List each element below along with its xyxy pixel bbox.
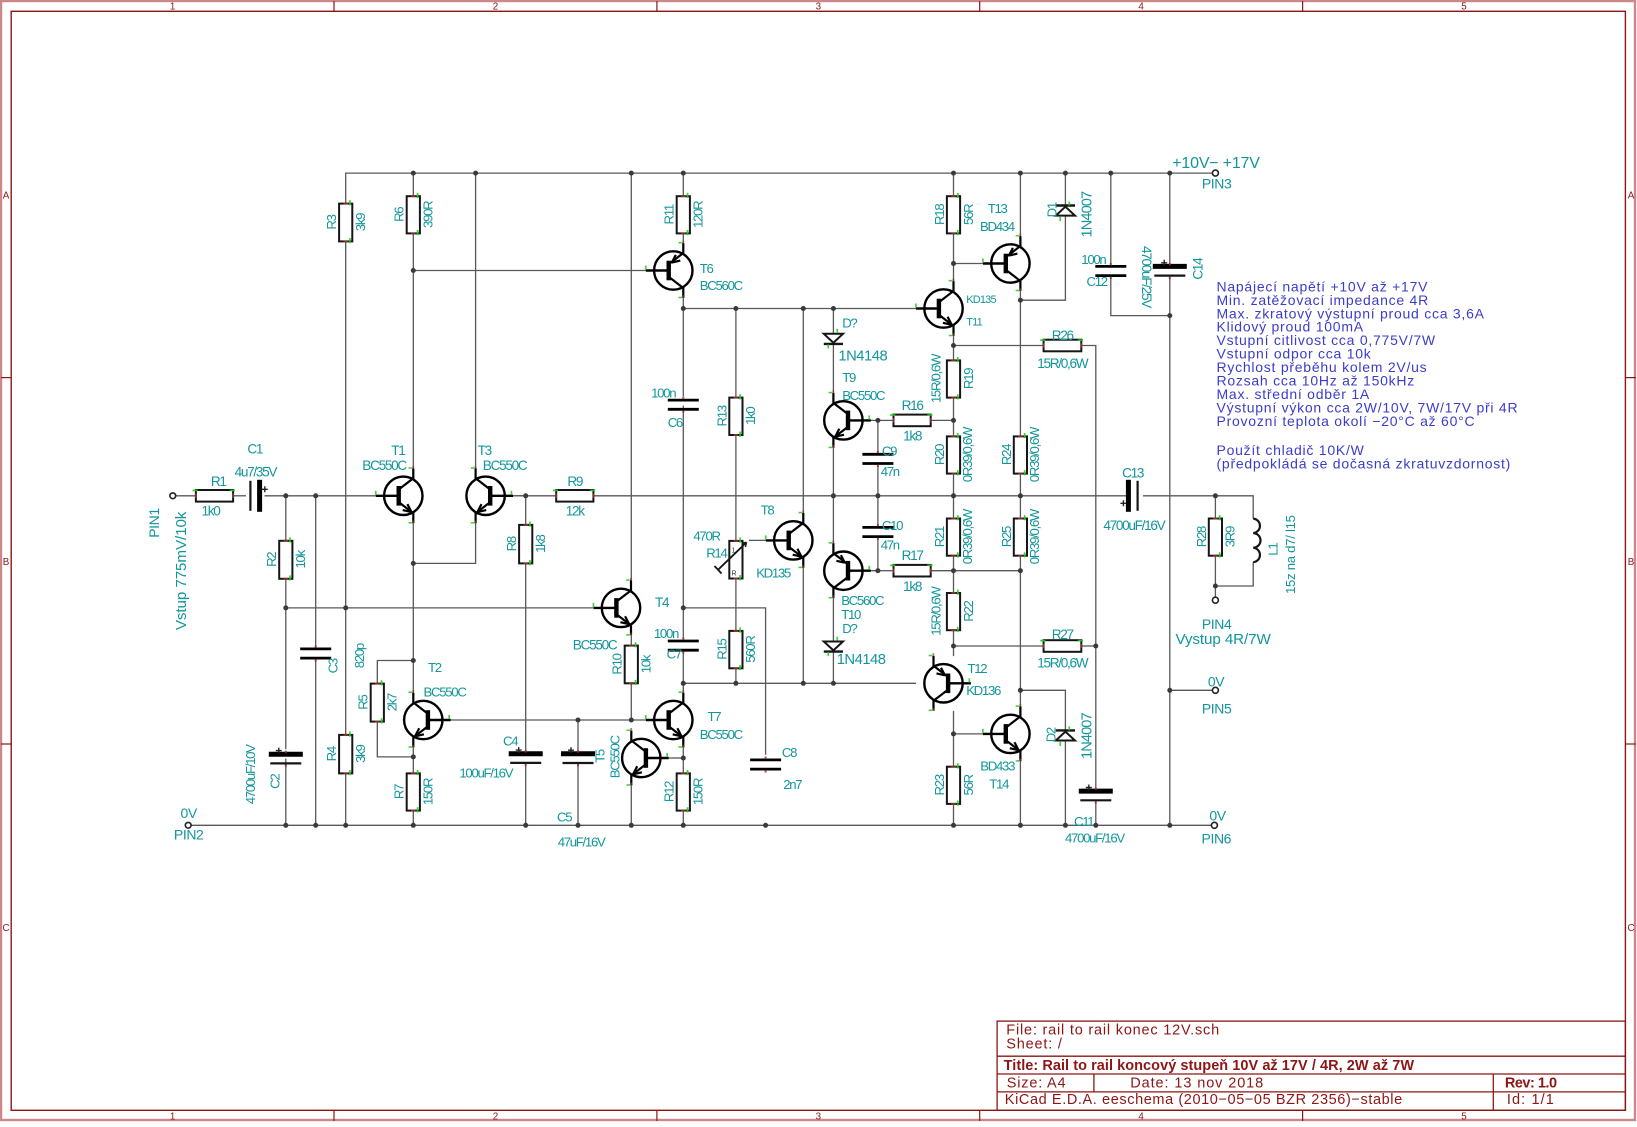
svg-text:2k7: 2k7 xyxy=(385,693,400,711)
wire R28 bottom pin xyxy=(1214,556,1216,586)
svg-text:4700uF/10V: 4700uF/10V xyxy=(243,744,258,804)
PIN3 circle xyxy=(1212,170,1218,176)
resistor R3 xyxy=(339,200,352,243)
svg-text:C14: C14 xyxy=(1191,257,1206,280)
svg-text:100n: 100n xyxy=(1081,252,1106,267)
wire T6 bottom pin ext xyxy=(682,298,684,309)
wire R17 left wire xyxy=(878,570,894,572)
svg-text:C5: C5 xyxy=(557,810,572,825)
svg-text:47uF/16V: 47uF/16V xyxy=(558,834,606,849)
wire C5 top xyxy=(577,720,579,754)
junction railb D2 xyxy=(1063,823,1068,828)
wire tail to T2 collector xyxy=(412,563,414,692)
resistor R12 xyxy=(677,770,690,812)
wire R12 pin top xyxy=(682,758,684,773)
wire input node xyxy=(176,495,196,497)
junction T13coll xyxy=(1018,298,1023,303)
wire T4 collector up xyxy=(630,173,632,580)
capacitor C14 xyxy=(1153,260,1187,279)
PIN5 circle xyxy=(1212,687,1218,693)
wire R7 bottom xyxy=(412,811,414,826)
wire T13 base wire xyxy=(954,263,984,265)
svg-text:R23: R23 xyxy=(932,774,947,795)
junction out R28 xyxy=(1213,493,1218,498)
svg-text:150R: 150R xyxy=(421,778,436,805)
junction railb C11 xyxy=(1093,823,1098,828)
wire R19-R20 junction xyxy=(953,398,955,437)
svg-text:B: B xyxy=(1628,557,1635,568)
wire R22 top xyxy=(953,571,955,593)
diode D?1 xyxy=(824,329,843,349)
wire R13 top pin xyxy=(735,309,737,398)
svg-text:BC550C: BC550C xyxy=(700,727,744,742)
svg-text:R17: R17 xyxy=(902,548,924,563)
svg-text:100n: 100n xyxy=(651,386,676,401)
junction railb C2 xyxy=(283,823,288,828)
wire C12 bottom wire xyxy=(1111,276,1170,316)
wire R17 right wire xyxy=(931,570,954,572)
junction railb C14 xyxy=(1167,823,1172,828)
junction railb R4 xyxy=(343,823,348,828)
wire C9 bottom xyxy=(877,464,879,496)
junction tail2 xyxy=(411,658,416,663)
svg-text:T1: T1 xyxy=(391,443,405,458)
svg-text:0V: 0V xyxy=(1209,808,1226,824)
wire R23 bottom xyxy=(953,804,955,825)
wire C11 bottom xyxy=(1095,800,1097,825)
wire R27 left wire xyxy=(954,645,1044,647)
svg-text:R2: R2 xyxy=(264,552,279,567)
capacitor C13 xyxy=(1120,480,1137,512)
junction mid C6C7 xyxy=(681,605,686,610)
junction railb C4 xyxy=(523,823,528,828)
svg-text:4700uF/16V: 4700uF/16V xyxy=(1103,518,1165,533)
svg-text:R14: R14 xyxy=(706,546,727,561)
svg-text:12k: 12k xyxy=(566,504,586,519)
svg-text:2: 2 xyxy=(493,2,498,13)
capacitor C11 xyxy=(1079,785,1113,804)
wire R19 top pin xyxy=(953,346,955,361)
svg-text:0R39/0,6W: 0R39/0,6W xyxy=(960,426,975,482)
input pin PIN1 circle xyxy=(170,493,176,499)
wire T7 emitter down xyxy=(682,747,684,758)
wire T11 emitter down xyxy=(953,336,955,346)
junction tail1 xyxy=(411,561,416,566)
svg-text:56R: 56R xyxy=(961,204,976,225)
svg-text:C9: C9 xyxy=(882,444,897,459)
svg-text:R12: R12 xyxy=(662,781,677,802)
svg-text:R5: R5 xyxy=(356,695,371,710)
wire R14 wiper to T8 base xyxy=(749,539,766,541)
svg-text:KD135: KD135 xyxy=(756,566,791,581)
junction T13base R18 xyxy=(951,261,956,266)
svg-text:820p: 820p xyxy=(352,643,367,668)
svg-text:BC560C: BC560C xyxy=(700,278,744,293)
junction rail C14 xyxy=(1167,171,1172,176)
capacitor C8 xyxy=(750,756,781,772)
svg-text:T6: T6 xyxy=(700,261,714,276)
resistor R20 xyxy=(947,433,960,475)
wire D2 top wire xyxy=(1020,690,1065,731)
junction row690 colB xyxy=(1018,688,1023,693)
svg-text:3R9: 3R9 xyxy=(1223,526,1238,547)
svg-text:PIN6: PIN6 xyxy=(1202,831,1232,847)
svg-text:Size: A4: Size: A4 xyxy=(1007,1076,1067,1092)
wire T14 emitter down xyxy=(1019,761,1021,825)
svg-text:C12: C12 xyxy=(1087,274,1108,289)
svg-text:0V: 0V xyxy=(181,805,198,821)
wire C14 bottom to PIN5/rail xyxy=(1169,276,1171,826)
inductor L1 xyxy=(1253,519,1260,563)
svg-text:1k0: 1k0 xyxy=(201,504,221,519)
svg-text:R25: R25 xyxy=(999,526,1014,547)
wire R22 bottom xyxy=(953,630,955,646)
resistor R11 xyxy=(677,193,690,235)
wire PIN5 wire xyxy=(1170,689,1213,691)
svg-text:R6: R6 xyxy=(392,207,407,222)
transistor T13 xyxy=(982,234,1030,292)
junction input C3 xyxy=(313,493,318,498)
svg-text:C4: C4 xyxy=(503,734,518,749)
wire T14 base wire xyxy=(954,733,984,735)
svg-text:T8: T8 xyxy=(761,503,775,518)
wire R8 top pin xyxy=(525,496,527,525)
svg-text:3k9: 3k9 xyxy=(353,745,368,763)
svg-text:R13: R13 xyxy=(714,405,729,426)
capacitor C12 xyxy=(1095,263,1126,279)
svg-text:1k8: 1k8 xyxy=(903,429,922,444)
transistor T2 xyxy=(404,690,451,748)
junction row683 R15 xyxy=(733,681,738,686)
wire R27 right wire xyxy=(1081,645,1096,647)
wire R1 to C1 xyxy=(233,495,246,497)
svg-text:L1: L1 xyxy=(1265,543,1280,556)
junction row683 T8e xyxy=(801,681,806,686)
capacitor C5 xyxy=(561,747,595,766)
wire T6 dot to C6 xyxy=(682,309,684,397)
resistor R21 xyxy=(947,515,960,557)
wire C4 bottom xyxy=(525,763,527,825)
wire T6 bottom row xyxy=(683,308,916,310)
svg-text:Vstup 775mV/10k: Vstup 775mV/10k xyxy=(173,511,190,630)
resistor R24 xyxy=(1014,433,1027,475)
svg-text:C1: C1 xyxy=(247,442,263,457)
svg-text:T5: T5 xyxy=(592,749,607,763)
title block xyxy=(997,1021,1625,1110)
svg-text:1N4148: 1N4148 xyxy=(837,652,886,668)
junction row733 xyxy=(951,731,956,736)
svg-text:C2: C2 xyxy=(268,774,283,789)
junction input R2 xyxy=(283,493,288,498)
PIN2 circle xyxy=(185,822,191,828)
wire T10 collector to D?2 xyxy=(832,598,834,641)
junction row420 colA xyxy=(951,418,956,423)
svg-text:C11: C11 xyxy=(1074,814,1094,829)
svg-text:R11: R11 xyxy=(662,204,677,224)
diode D2 xyxy=(1056,726,1075,746)
resistor R25 xyxy=(1014,515,1027,557)
junction row570 colB xyxy=(1018,568,1023,573)
svg-text:PIN5: PIN5 xyxy=(1202,701,1232,717)
junction tail3 xyxy=(411,754,416,759)
svg-text:KD135: KD135 xyxy=(966,294,996,306)
wire T13 collector down xyxy=(1019,291,1021,300)
svg-text:1: 1 xyxy=(170,2,175,13)
wire R3 bottom to R4 top xyxy=(345,241,347,735)
svg-text:BD433: BD433 xyxy=(980,759,1015,774)
wire T7 collector up xyxy=(682,683,684,692)
wire R8 to C4 xyxy=(525,563,527,753)
wire T3 base junction xyxy=(513,495,526,497)
resistor R19 xyxy=(947,357,960,399)
resistor R9 xyxy=(553,490,595,502)
svg-text:C3: C3 xyxy=(325,658,340,673)
wire T5 emitter down xyxy=(630,785,632,825)
junction T3base xyxy=(523,493,528,498)
wire R6 top pin xyxy=(412,173,414,196)
wire T9 emitter to out xyxy=(832,448,834,496)
capacitor C3 xyxy=(300,645,331,661)
svg-text:R27: R27 xyxy=(1052,627,1074,642)
svg-text:PIN3: PIN3 xyxy=(1202,176,1232,192)
svg-text:+10V− +17V: +10V− +17V xyxy=(1172,155,1260,172)
resistor R26 xyxy=(1040,339,1083,351)
wire C5 bottom xyxy=(577,763,579,825)
junction T5base xyxy=(681,756,686,761)
wire R5 bottom wire xyxy=(377,722,413,757)
svg-text:3: 3 xyxy=(816,1111,822,1122)
junction R6 bottom xyxy=(411,268,416,273)
wire R17 row to colB xyxy=(954,570,1021,572)
junction out colA xyxy=(951,493,956,498)
diode D1 xyxy=(1056,202,1075,222)
svg-text:1: 1 xyxy=(732,548,736,555)
transistor T5 xyxy=(622,728,669,786)
junction base2 R10 xyxy=(629,718,634,723)
resistor R16 xyxy=(890,414,932,426)
wire R18 top pin xyxy=(953,173,955,196)
junction row646 colA xyxy=(951,644,956,649)
svg-text:R28: R28 xyxy=(1194,526,1209,547)
svg-text:PIN4: PIN4 xyxy=(1202,616,1232,632)
svg-text:T10: T10 xyxy=(841,607,861,622)
junction row690 PIN5 xyxy=(1167,688,1172,693)
wire R25 top xyxy=(1019,496,1021,519)
wire R10 bottom xyxy=(630,683,632,720)
wire R11 to T6 xyxy=(682,233,684,243)
junction railb C5 xyxy=(576,823,581,828)
resistor R18 xyxy=(947,193,960,235)
svg-text:T2: T2 xyxy=(428,660,442,675)
wire C10 bottom xyxy=(877,537,879,571)
svg-text:R7: R7 xyxy=(392,784,407,799)
svg-text:560R: 560R xyxy=(743,636,758,663)
svg-text:T9: T9 xyxy=(842,370,856,385)
transistor T6 xyxy=(645,241,693,299)
capacitor C6 xyxy=(668,397,699,413)
resistor R22 xyxy=(947,590,960,632)
svg-text:C: C xyxy=(2,923,9,934)
wire D1 wire corner xyxy=(1020,215,1065,300)
svg-text:4700uF/25V: 4700uF/25V xyxy=(1139,246,1154,308)
wire out to T10 emitter xyxy=(832,496,834,544)
svg-text:R: R xyxy=(732,571,737,578)
wire R2 bottom pin xyxy=(285,579,287,608)
wire C12 top xyxy=(1110,173,1112,266)
svg-text:R3: R3 xyxy=(324,214,339,229)
svg-text:120R: 120R xyxy=(691,201,706,228)
resistor R2 xyxy=(279,537,292,580)
junction railb R12 xyxy=(681,823,686,828)
svg-text:Vystup 4R/7W: Vystup 4R/7W xyxy=(1175,631,1271,648)
svg-text:3k9: 3k9 xyxy=(353,213,368,231)
svg-text:T11: T11 xyxy=(966,317,982,329)
wire T6 collector row xyxy=(413,270,646,272)
wire R26 left wire xyxy=(954,345,1044,347)
svg-text:R9: R9 xyxy=(567,474,583,489)
junction out C9C10 xyxy=(875,493,880,498)
PIN4 circle xyxy=(1212,597,1218,603)
trimmer R14 xyxy=(715,538,747,581)
svg-text:15R/0,6W: 15R/0,6W xyxy=(1037,356,1089,371)
junction rail R11 xyxy=(681,171,686,176)
wire C13 to output junction xyxy=(1143,495,1215,497)
svg-text:1N4007: 1N4007 xyxy=(1079,191,1095,238)
resistor R17 xyxy=(890,565,932,577)
svg-text:3: 3 xyxy=(816,2,822,13)
svg-text:470R: 470R xyxy=(693,528,720,543)
wire T3 collector up xyxy=(475,173,477,468)
svg-text:4700uF/16V: 4700uF/16V xyxy=(1065,831,1125,846)
wire R28 top pin xyxy=(1214,496,1216,519)
junction mid R2 xyxy=(283,605,288,610)
svg-text:T7: T7 xyxy=(708,709,722,724)
transistor T4 xyxy=(593,578,641,636)
wire T2 base wire xyxy=(451,719,646,721)
wire PIN4 stub xyxy=(1214,586,1216,597)
transistor T12 xyxy=(924,653,971,711)
svg-text:1: 1 xyxy=(170,1111,175,1122)
wire D?2 bottom xyxy=(832,651,834,683)
wire R27 node to C11 xyxy=(1095,646,1097,791)
wire T3 base to R8/R9 node xyxy=(505,495,556,497)
wire R6 dot to T1 collector xyxy=(412,271,414,469)
resistor R13 xyxy=(729,394,742,437)
wire mid bias wire xyxy=(286,607,594,609)
capacitor C10 xyxy=(862,524,893,540)
svg-text:BC560C: BC560C xyxy=(841,593,885,608)
wire D2 bottom wire xyxy=(1064,740,1066,825)
junction row308 T8 xyxy=(801,306,806,311)
svg-text:R1: R1 xyxy=(211,474,227,489)
capacitor C2 xyxy=(269,748,303,767)
resistor R1 xyxy=(193,490,235,502)
junction railb C3 xyxy=(313,823,318,828)
svg-text:15R/0,6W: 15R/0,6W xyxy=(1037,655,1089,670)
wire +V top rail xyxy=(346,173,1213,204)
wire R13 to R14 xyxy=(735,435,737,541)
wire C6 to C7 xyxy=(682,406,684,641)
svg-text:R10: R10 xyxy=(610,653,625,674)
svg-text:0R39/0,6W: 0R39/0,6W xyxy=(1027,426,1042,482)
wire R2 top pin xyxy=(285,496,287,541)
svg-text:C6: C6 xyxy=(668,415,683,430)
wire T9 base wire xyxy=(861,419,878,421)
transistor T7 xyxy=(645,690,693,748)
resistor R7 xyxy=(407,770,420,812)
junction railb T5 xyxy=(629,823,634,828)
capacitor C7 xyxy=(668,638,699,654)
svg-text:1k8: 1k8 xyxy=(903,579,922,594)
svg-text:R19: R19 xyxy=(961,368,976,389)
junction row570 C10 xyxy=(875,568,880,573)
svg-text:0R39/0,6W: 0R39/0,6W xyxy=(960,508,975,564)
svg-text:BC550C: BC550C xyxy=(362,458,407,473)
wire R14 to R15 xyxy=(735,579,737,631)
wire R11 top pin xyxy=(682,173,684,196)
wire R21 bottom xyxy=(953,556,955,571)
wire emitter tail T1-T3 xyxy=(413,523,475,563)
svg-text:R15: R15 xyxy=(714,638,729,659)
resistor R27 xyxy=(1040,640,1083,652)
transistor T8 xyxy=(765,510,813,568)
junction row308 R13 xyxy=(733,306,738,311)
junction C12C14 bot xyxy=(1167,313,1172,318)
svg-text:1k0: 1k0 xyxy=(743,407,758,425)
junction rail R6 xyxy=(411,171,416,176)
wire R6 bottom pin xyxy=(412,233,414,270)
transistor T3 xyxy=(466,466,513,524)
svg-text:2n7: 2n7 xyxy=(783,777,802,792)
svg-text:BC550C: BC550C xyxy=(573,637,618,652)
wire C2 bottom xyxy=(285,759,287,826)
wire colB to T14 collector xyxy=(1019,571,1021,707)
svg-text:R21: R21 xyxy=(932,526,947,547)
svg-text:R18: R18 xyxy=(932,204,947,225)
svg-text:47n: 47n xyxy=(881,464,900,479)
capacitor C1 xyxy=(250,480,267,512)
svg-text:4: 4 xyxy=(1138,1111,1144,1122)
junction rail C12 xyxy=(1108,171,1113,176)
svg-text:10k: 10k xyxy=(639,654,654,673)
svg-text:BC550C: BC550C xyxy=(608,734,623,778)
svg-text:C7: C7 xyxy=(667,646,682,661)
svg-text:BC550C: BC550C xyxy=(424,685,468,700)
svg-text:T12: T12 xyxy=(968,661,988,676)
svg-text:R22: R22 xyxy=(961,600,976,621)
junction row570 colA xyxy=(951,568,956,573)
wire output node long wire xyxy=(593,495,1127,497)
svg-text:D?: D? xyxy=(842,621,857,636)
junction row308 D?1 xyxy=(831,306,836,311)
wire R23 top xyxy=(953,734,955,767)
wire colB down to R24 xyxy=(1019,300,1021,436)
junction rail D1 xyxy=(1063,171,1068,176)
diode D?2 xyxy=(824,637,843,657)
svg-text:C: C xyxy=(1627,923,1634,934)
svg-text:15R/0,6W: 15R/0,6W xyxy=(929,586,944,636)
wire C14 top xyxy=(1169,173,1171,266)
junction row683 C7 xyxy=(681,681,686,686)
junction row683 D?2 xyxy=(831,681,836,686)
wire R5 top wire xyxy=(377,661,413,684)
junction mid R3R4 xyxy=(343,605,348,610)
capacitor C4 xyxy=(509,747,543,766)
wire C7 bottom row xyxy=(683,682,916,684)
svg-text:(předpokládá se dočasná zkratu: (předpokládá se dočasná zkratuvzdornost) xyxy=(1217,455,1512,471)
transistor T1 xyxy=(375,466,423,524)
svg-text:15z na d7/ l15: 15z na d7/ l15 xyxy=(1283,515,1298,594)
